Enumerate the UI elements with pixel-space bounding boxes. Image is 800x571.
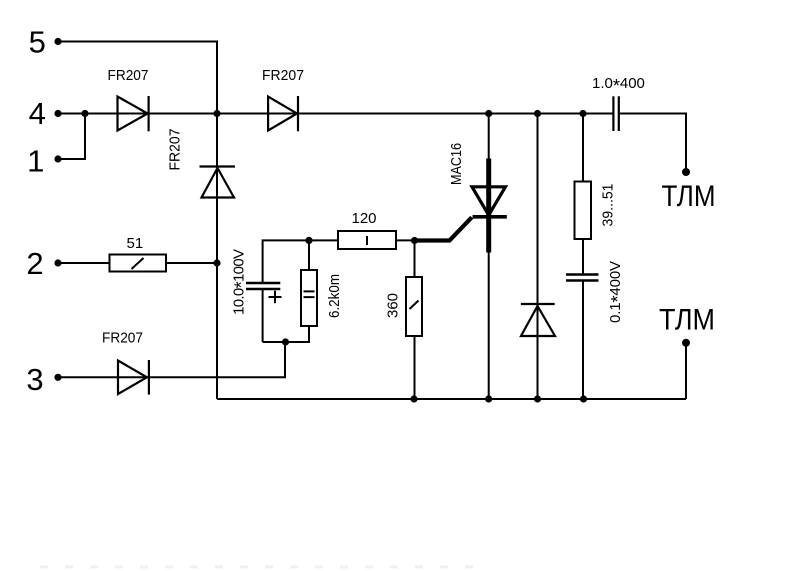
- wire terminal 4 through diodes D1,D2 along top bus: [58, 113, 613, 115]
- wire resistor R4 (360) top lead: [414, 241, 416, 278]
- diode D3 FR207 vertical: [200, 167, 236, 198]
- junction node A mid (R1): [213, 259, 220, 266]
- terminal 3 dot: [54, 374, 61, 381]
- svg-text:ТЛМ: ТЛМ: [659, 304, 715, 337]
- terminal TLM2 dot: [682, 339, 690, 347]
- wire resistor R2 top lead: [308, 240, 310, 270]
- wire terminal TLM2 down to bottom bus: [685, 343, 687, 399]
- wire triac U1 bottom lead: [488, 252, 490, 399]
- wire terminal 5 to node at x=217: [58, 42, 217, 114]
- wire bottom bus: [217, 398, 686, 400]
- wire capacitor C2 bottom lead: [582, 282, 584, 400]
- svg-text:4: 4: [29, 96, 46, 131]
- junction gate node: [411, 237, 418, 244]
- diode D4 FR207: [118, 360, 149, 395]
- svg-text:120: 120: [352, 210, 377, 227]
- terminal TLM1 dot: [682, 168, 690, 176]
- junction RC bottom node: [282, 338, 289, 345]
- diode D5: [521, 304, 555, 336]
- wire node column x=217 through diode D3 down to bottom bus: [216, 114, 218, 400]
- svg-text:1: 1: [27, 143, 44, 178]
- junction resistor R5 top: [579, 110, 586, 117]
- resistor R4 360: [406, 277, 422, 336]
- wire capacitor C1 top to resistor R3 (120): [263, 240, 338, 283]
- wire terminal 1 up to terminal-4 wire: [58, 114, 85, 160]
- wire capacitor C3 to terminal TLM1: [620, 114, 686, 173]
- capacitor C2 0.1*400V: [566, 275, 599, 281]
- wire resistor R3 to gate node: [396, 239, 415, 241]
- wire RC bottom: capacitor C1 to resistor R2 bottom: [263, 326, 309, 342]
- wire terminal 2 to resistor R1: [58, 262, 110, 264]
- resistor R5 39...51: [575, 182, 592, 240]
- wire resistor R4 (360) bottom lead: [414, 336, 416, 399]
- resistor R3 120: [338, 231, 396, 249]
- wire resistor R5 to capacitor C2: [582, 239, 584, 274]
- junction triac top: [485, 110, 492, 117]
- junction RC top node: [305, 237, 312, 244]
- plus sign of C1: [269, 291, 282, 304]
- junction triac bottom bus: [485, 395, 492, 402]
- svg-text:MAC16: MAC16: [448, 143, 465, 185]
- wire diode D5 column top bus to bottom bus: [537, 114, 539, 400]
- wire resistor R5 top lead: [582, 114, 584, 182]
- junction C2 bottom bus: [580, 395, 587, 402]
- svg-text:FR207: FR207: [102, 330, 143, 347]
- svg-text:6.2k0m: 6.2k0m: [326, 274, 343, 318]
- junction node A top: [213, 110, 220, 117]
- junction diode D5 bottom bus: [534, 395, 541, 402]
- terminal 4 dot: [54, 110, 61, 117]
- svg-text:FR207: FR207: [262, 67, 304, 84]
- svg-text:ТЛМ: ТЛМ: [662, 180, 716, 213]
- junction diode D5 top: [534, 110, 541, 117]
- resistor R1 51: [110, 255, 167, 272]
- wire terminal 3 through diode D4 to RC bottom node: [58, 342, 285, 377]
- svg-text:5: 5: [29, 25, 46, 60]
- resistor R2 6.2k0m: [301, 270, 317, 326]
- junction R4 bottom bus: [410, 395, 417, 402]
- diode D2 FR207: [268, 96, 298, 131]
- diode D1 FR207: [118, 96, 149, 131]
- svg-text:FR207: FR207: [167, 129, 184, 171]
- triac U1 MAC16: [415, 159, 507, 253]
- svg-text:2: 2: [26, 246, 43, 281]
- terminal 2 dot: [54, 259, 61, 266]
- terminal 1 dot: [54, 155, 61, 162]
- wire triac U1 top lead: [488, 114, 490, 160]
- svg-text:360: 360: [385, 293, 402, 318]
- svg-text:FR207: FR207: [108, 67, 149, 84]
- svg-text:51: 51: [127, 235, 144, 252]
- svg-text:39...51: 39...51: [600, 184, 617, 227]
- capacitor C3 1.0*400: [613, 96, 618, 131]
- terminal 5 dot: [54, 38, 61, 45]
- wire capacitor C1 bottom lead: [262, 289, 264, 342]
- junction terminal 1/4: [81, 110, 88, 117]
- capacitor C1 10.0*100V polarized: [246, 283, 280, 289]
- svg-text:3: 3: [26, 362, 43, 397]
- wire resistor R1 to node A column: [166, 262, 217, 264]
